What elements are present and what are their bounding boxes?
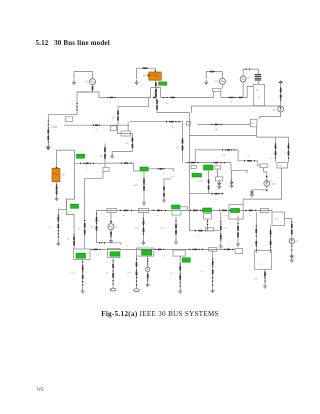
wire twin v2: [288, 137, 290, 162]
measure block M3b (green): [203, 208, 212, 212]
arrow dots v270 b: [270, 243, 271, 250]
wire G1 to bus1: [77, 85, 93, 92]
arrowhead into M1: [154, 70, 156, 72]
arrow dots bus D: [211, 193, 222, 194]
svg-text:2s: 2s: [126, 246, 129, 248]
wire bus1 to B1: [247, 86, 253, 97]
wire main bus 1c: [221, 97, 247, 99]
load element v61: [155, 89, 157, 93]
ground left chain: [46, 145, 50, 150]
load block B11: [255, 251, 272, 270]
wire v87 top: [84, 178, 86, 249]
svg-text:23: 23: [96, 255, 99, 257]
transformer box TB4: [173, 250, 185, 256]
load element v40: [104, 154, 106, 158]
line block TB5: [235, 249, 243, 254]
svg-text:22: 22: [78, 229, 81, 231]
load element v46: [156, 105, 158, 109]
pin nub M2: [56, 167, 58, 169]
svg-text:2: 2: [68, 239, 70, 241]
load element v17: [143, 228, 145, 232]
svg-text:2k: 2k: [91, 227, 94, 229]
arrow dots v256 a: [256, 225, 257, 236]
arrow dots h1217: [166, 121, 180, 122]
load block B1: [253, 84, 264, 105]
current measure A7: [289, 238, 294, 243]
ground under C6: [146, 282, 150, 287]
svg-text:G1: G1: [85, 80, 89, 84]
svg-text:M2: M2: [62, 174, 66, 177]
arrow dots under TB3: [136, 258, 137, 285]
wire v105 to block: [104, 163, 106, 167]
junction dots C8: [266, 176, 268, 192]
ground under TB4: [178, 289, 182, 294]
wire bus2 step up: [151, 88, 161, 98]
wire h137: [257, 136, 289, 138]
wire h106: [191, 105, 280, 107]
svg-text:D9: D9: [163, 256, 167, 258]
arrow dots C5: [110, 232, 111, 237]
ellipse ground TB3: [134, 289, 140, 292]
load element v42: [132, 144, 134, 148]
line arrow h23: [95, 124, 99, 126]
sync condenser C6: [146, 267, 150, 271]
load element v23: [255, 241, 257, 245]
load element v57: [56, 186, 58, 190]
load element v6: [136, 262, 138, 266]
line block L34: [65, 117, 73, 122]
arrow dots h163a: [80, 163, 94, 164]
wire gen2 top loop: [206, 72, 222, 79]
svg-text:0.09: 0.09: [160, 228, 165, 230]
arrow dots G1 drop: [92, 86, 93, 90]
transformer block T2: [213, 88, 221, 91]
line block L57: [103, 167, 109, 171]
wire drop to node19: [118, 98, 149, 126]
line arrow h24: [215, 162, 219, 164]
AC source G8: [108, 224, 114, 230]
load element v62: [155, 93, 157, 97]
svg-text:4/0: 4/0: [255, 279, 259, 281]
load element v10: [179, 275, 181, 279]
svg-text:2k: 2k: [225, 215, 228, 217]
line block L24a: [107, 208, 116, 212]
load element v21: [237, 232, 239, 236]
arrow dots bus1 b: [163, 97, 172, 98]
svg-text:24: 24: [123, 215, 126, 217]
load element v51: [208, 179, 210, 183]
arrow dots below green22: [143, 178, 144, 191]
svg-text:#0a: #0a: [247, 156, 251, 158]
arrow dots v280: [280, 87, 281, 100]
wire h150: [195, 149, 238, 151]
arrow dots stair right: [244, 160, 255, 161]
load element v8: [147, 274, 149, 278]
arrow dots bus1 d: [228, 97, 235, 98]
ground below green22: [142, 201, 146, 206]
arrow dots v74: [73, 234, 74, 245]
line arrow h18: [227, 149, 231, 151]
wire v190 long b: [188, 113, 190, 231]
wire below B11: [264, 269, 266, 283]
load block B10: [277, 163, 288, 169]
wire green22 right: [148, 169, 174, 172]
transformer box TB3: [137, 248, 154, 256]
ground x164 chain: [162, 198, 166, 203]
line arrow h11: [158, 249, 162, 251]
load element v2: [82, 266, 84, 270]
line block L21: [191, 166, 196, 169]
arrow dots bus230: [195, 230, 206, 231]
wire v280 lower: [260, 112, 281, 119]
svg-text:D: D: [193, 254, 195, 256]
svg-text:2: 2: [86, 168, 88, 170]
ground under TB1: [81, 289, 85, 294]
svg-text:D: D: [209, 191, 211, 193]
svg-text:(A): (A): [273, 108, 276, 111]
up arrow A4: [279, 81, 282, 85]
load element v16: [143, 220, 145, 224]
wire G3 to bus1: [242, 82, 244, 98]
arrow dots under TB2: [112, 260, 113, 284]
measure block M7 (green): [192, 173, 202, 177]
arrow dots below M7: [208, 179, 209, 189]
svg-text:24: 24: [157, 215, 160, 217]
load element v5: [112, 273, 114, 277]
arrow dots bus162 b: [213, 162, 225, 163]
line arrow h16: [159, 168, 163, 170]
wire v243: [242, 199, 244, 204]
svg-text:0.98#: 0.98#: [223, 228, 229, 230]
arrow dots under M3b: [207, 220, 208, 228]
measure block M21 (green): [204, 165, 214, 170]
wire under TB1: [82, 260, 84, 289]
junction dot above G8: [110, 221, 112, 223]
svg-text:0.08: 0.08: [135, 228, 140, 230]
machine block M1 (orange): [149, 72, 162, 80]
arrow dots v105: [104, 147, 105, 159]
arrow dots below A7: [291, 245, 292, 250]
svg-text:M1: M1: [143, 75, 147, 78]
wire M2 to ground: [56, 182, 58, 196]
wire twin v1: [275, 137, 277, 162]
arrow dots M1 loop: [142, 68, 147, 69]
svg-text:2s: 2s: [166, 103, 169, 105]
svg-text:D: D: [228, 246, 230, 248]
scope block S6 (green): [71, 204, 79, 208]
down arrow A7: [290, 253, 293, 258]
load element v25: [270, 241, 272, 245]
arrow dots bbus a: [91, 249, 100, 250]
wire v96 leg: [96, 210, 98, 233]
line arrow h7: [193, 210, 197, 212]
arrow dots v96: [96, 213, 97, 230]
AC source G3: [240, 76, 246, 82]
svg-text:(1/4: (1/4: [201, 271, 205, 273]
arrow dots bus162 a: [188, 162, 199, 163]
down arrow A2: [250, 190, 253, 194]
wire C5 bottom: [110, 230, 112, 239]
line block under M3b: [204, 214, 212, 220]
svg-text:2: 2: [234, 172, 236, 174]
wire G2 to box: [221, 84, 223, 88]
svg-text:2: 2: [153, 101, 155, 105]
svg-text:2P: 2P: [100, 156, 103, 158]
load element v13: [264, 272, 266, 276]
ground C5: [109, 238, 113, 243]
svg-text:G2: G2: [215, 79, 219, 83]
wire v270: [270, 226, 272, 254]
wire main bus 3: [97, 209, 269, 211]
load element v20: [237, 226, 239, 230]
arrow dots below M3a: [175, 220, 176, 234]
ground A2: [250, 192, 254, 197]
wire source3 top loop: [243, 69, 258, 76]
line arrow h26: [143, 67, 147, 69]
wire h199: [243, 198, 282, 200]
wire below A7: [291, 244, 293, 254]
arrow dots bbus d: [224, 249, 233, 250]
line arrow h22: [170, 121, 174, 123]
wire B9 out: [285, 219, 292, 239]
load element v19: [220, 235, 222, 239]
load element v36: [280, 94, 282, 98]
wire stair node17: [112, 125, 132, 153]
svg-text:21: 21: [193, 171, 196, 173]
wire M2 loop: [57, 150, 75, 199]
wire stair right: [238, 150, 260, 166]
arrow dots twin v2: [288, 143, 289, 158]
load element v4: [112, 264, 114, 268]
load element v41: [132, 138, 134, 142]
line arrow h27: [210, 71, 214, 73]
line arrow h13: [226, 249, 230, 251]
load element v37: [47, 129, 49, 133]
line arrow h10: [94, 249, 98, 251]
ground v238: [236, 242, 240, 247]
ground M2 bottom: [55, 196, 59, 201]
wire M1 top loop: [137, 68, 156, 79]
svg-text:0.98: 0.98: [71, 273, 76, 275]
arrow dots under LD2: [212, 258, 213, 285]
svg-text:28: 28: [176, 148, 179, 150]
line arrow h15: [124, 162, 128, 164]
ground below elbow: [230, 183, 234, 188]
arrow dots src3 loop: [245, 68, 250, 69]
arrow dots bus1 e: [238, 97, 242, 98]
svg-text:0/08: 0/08: [171, 177, 176, 179]
svg-text:#0: #0: [260, 264, 263, 266]
load element v60: [155, 82, 157, 86]
wire branchB: [157, 98, 189, 113]
wire bus 230: [189, 230, 220, 232]
wire stub below elbow: [231, 170, 233, 180]
svg-text:60S: 60S: [251, 123, 255, 125]
arrow dots v220 a: [220, 221, 221, 227]
svg-text:2k: 2k: [284, 152, 287, 154]
arrow dots twin v1: [275, 143, 276, 158]
ground below M3a: [174, 240, 178, 245]
line block L28: [260, 164, 267, 168]
scope block S5 (green): [77, 154, 85, 158]
load element v35: [280, 88, 282, 92]
load element v34: [291, 230, 293, 234]
transformer box right: [229, 205, 243, 220]
load element v15: [175, 230, 177, 234]
arrow dots h163b: [121, 162, 132, 163]
load element v31: [96, 226, 98, 230]
line arrow h5: [124, 210, 128, 212]
wire under TB3b: [147, 256, 149, 267]
arrow dots bbus b: [155, 249, 164, 250]
svg-text:G#: G#: [116, 227, 120, 229]
scope TB4 (green): [182, 258, 190, 262]
pin nub M1: [148, 75, 150, 77]
wire M3a jog: [180, 207, 188, 210]
svg-text:0.98: 0.98: [127, 273, 132, 275]
current measure A4: [278, 106, 284, 112]
arrow dots left chain a: [48, 120, 49, 128]
load element v47: [182, 139, 184, 143]
line block L230: [206, 228, 214, 231]
wire main bus 1: [77, 92, 151, 98]
ellipse ground TB2: [110, 288, 116, 291]
arrow dots bus3 a: [120, 210, 132, 211]
line arrow h14: [85, 163, 89, 165]
svg-text:2s: 2s: [215, 199, 218, 201]
measure block M22 (green): [140, 167, 148, 171]
load element v58: [56, 190, 58, 194]
load element v29: [73, 241, 75, 245]
wire v191: [190, 106, 192, 113]
wire v143 mid: [143, 213, 145, 241]
line arrow h2: [171, 97, 175, 99]
wire h163: [75, 162, 106, 164]
line block LD2: [209, 248, 217, 252]
measure block M3c (green): [231, 209, 240, 213]
wire C5 top: [110, 213, 112, 224]
wire bus D: [189, 193, 224, 195]
load block B9: [272, 212, 285, 226]
svg-text:2: 2: [163, 173, 165, 175]
svg-text:1: 1: [265, 246, 267, 248]
load element v0: [57, 216, 59, 220]
wire v220: [220, 212, 222, 244]
load element v1: [57, 224, 59, 228]
ground stair: [110, 154, 114, 159]
wire v196: [194, 150, 196, 163]
arrow dots h124: [211, 124, 221, 125]
wire v238: [237, 216, 239, 242]
ground chain58: [56, 241, 60, 246]
wire below M7: [208, 168, 210, 194]
wire B2 bottom: [256, 127, 258, 137]
load element v12: [212, 270, 214, 274]
arrow dots below M2: [56, 184, 57, 194]
arrow dots h150: [222, 149, 235, 150]
down arrow below elbow: [230, 180, 233, 184]
wire h124: [198, 124, 251, 126]
ground gen1: [72, 80, 76, 85]
AC source G2: [219, 78, 225, 84]
svg-text:17: 17: [126, 143, 129, 145]
wire below M3a: [175, 216, 177, 239]
wire under LD2: [212, 251, 214, 288]
wire drop to T17: [127, 122, 129, 131]
arrow dots v87: [84, 220, 85, 235]
svg-text:1: 1: [251, 246, 253, 248]
line block L27: [260, 208, 268, 212]
wire bottom bus: [90, 248, 235, 250]
line arrow h4: [239, 97, 243, 99]
scope TB3 (green): [142, 250, 152, 255]
arrow dots under TB1: [82, 261, 83, 285]
svg-text:G3: G3: [247, 77, 251, 80]
svg-text:19: 19: [112, 117, 115, 119]
line block L3: [111, 126, 117, 131]
wire B9 in: [269, 210, 273, 212]
down arrow 218: [218, 181, 221, 185]
arrow dots node19: [117, 110, 118, 120]
svg-text:0.989: 0.989: [133, 185, 139, 187]
arrow dots under TB4: [180, 263, 181, 286]
wire v87 elbow: [85, 172, 103, 179]
load element v55: [288, 145, 290, 149]
svg-text:(A)2: (A)2: [272, 182, 277, 185]
wire M1 to bus2 step: [155, 80, 157, 87]
line arrow h12: [194, 249, 198, 251]
wire h163b: [105, 163, 140, 171]
wire v256: [255, 213, 257, 254]
load element v22: [255, 229, 257, 233]
arrow dots v182: [182, 138, 183, 150]
wire elbow164 v: [163, 179, 165, 198]
wire C8 bottom: [252, 186, 267, 189]
svg-text:(A): (A): [296, 240, 299, 243]
arrow dots branchB: [156, 100, 157, 110]
load element v26: [84, 223, 86, 227]
line block under L21b: [216, 177, 223, 181]
svg-text:+08: +08: [105, 273, 109, 275]
ground v143 mid: [141, 240, 145, 245]
transformer box TB2: [108, 249, 121, 258]
wire mid bus 162: [185, 162, 231, 164]
wire under M3b: [207, 219, 209, 231]
line arrow h1: [153, 97, 157, 99]
load element v7: [136, 271, 138, 275]
wire T2 legs: [213, 92, 215, 98]
arrow dots v220 b: [220, 233, 221, 240]
load element v64: [163, 193, 165, 197]
wire below green22: [143, 171, 145, 201]
arrow dots bus3 b: [153, 210, 166, 211]
wire S1 to box B1: [257, 81, 259, 85]
wire loop 218: [217, 169, 219, 177]
arrow dots B9 out: [291, 221, 292, 234]
load element v50: [143, 186, 145, 190]
load element v53: [275, 145, 277, 149]
load element v48: [182, 145, 184, 149]
load element v11: [212, 261, 214, 265]
svg-text:0.07: 0.07: [49, 227, 54, 229]
arrow dots stair: [132, 137, 133, 148]
load element v45: [156, 99, 158, 103]
svg-text:600: 600: [256, 90, 260, 92]
scope TB1 (green): [76, 253, 86, 258]
arrow dots left chain b: [48, 132, 49, 142]
wire v105: [104, 144, 106, 164]
arrow dots under C6: [147, 273, 148, 280]
